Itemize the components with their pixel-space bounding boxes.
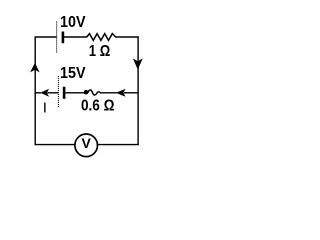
voltmeter M1 circle xyxy=(75,134,98,157)
junction dot xyxy=(84,90,89,95)
svg-text:10V: 10V xyxy=(60,14,86,31)
wire: top horizontal (battery to resistor) xyxy=(63,36,87,38)
wire: right vertical xyxy=(137,37,139,145)
svg-text:V: V xyxy=(82,135,92,151)
resistor R2 0.6 ohm squiggle xyxy=(88,90,100,95)
wire: left vertical xyxy=(34,37,36,145)
wire: middle branch (arrow to right wire) xyxy=(124,92,139,94)
arrowhead up on left wire xyxy=(30,63,40,73)
arrowhead left on middle branch right side xyxy=(116,89,126,97)
battery B1 10V: long plate xyxy=(56,22,58,54)
svg-text:15V: 15V xyxy=(60,65,86,82)
resistor R1 zigzag xyxy=(87,34,116,41)
svg-text:1 Ω: 1 Ω xyxy=(89,43,111,60)
wire: bottom horizontal (right of voltmeter) xyxy=(97,144,138,146)
wire: middle branch (squiggle to arrow) xyxy=(100,92,117,94)
svg-text:0.6 Ω: 0.6 Ω xyxy=(81,98,115,115)
svg-text:I: I xyxy=(43,99,47,116)
wire: top horizontal (left of battery) xyxy=(35,36,57,38)
arrowhead down on right wire xyxy=(133,58,143,69)
battery B2 15V: short plate xyxy=(63,87,66,99)
wire: middle branch (battery to dot) xyxy=(65,92,85,94)
wire: top horizontal (resistor to right corner) xyxy=(116,36,139,38)
battery B1 10V: short plate xyxy=(62,32,65,44)
wire: bottom horizontal (left of voltmeter) xyxy=(35,144,76,146)
arrowhead left (current I) near left wire xyxy=(40,89,49,97)
wire: middle branch left stub xyxy=(35,92,41,94)
battery B2 15V: long plate xyxy=(57,76,59,108)
wire: middle branch (arrow to battery) xyxy=(48,92,59,94)
